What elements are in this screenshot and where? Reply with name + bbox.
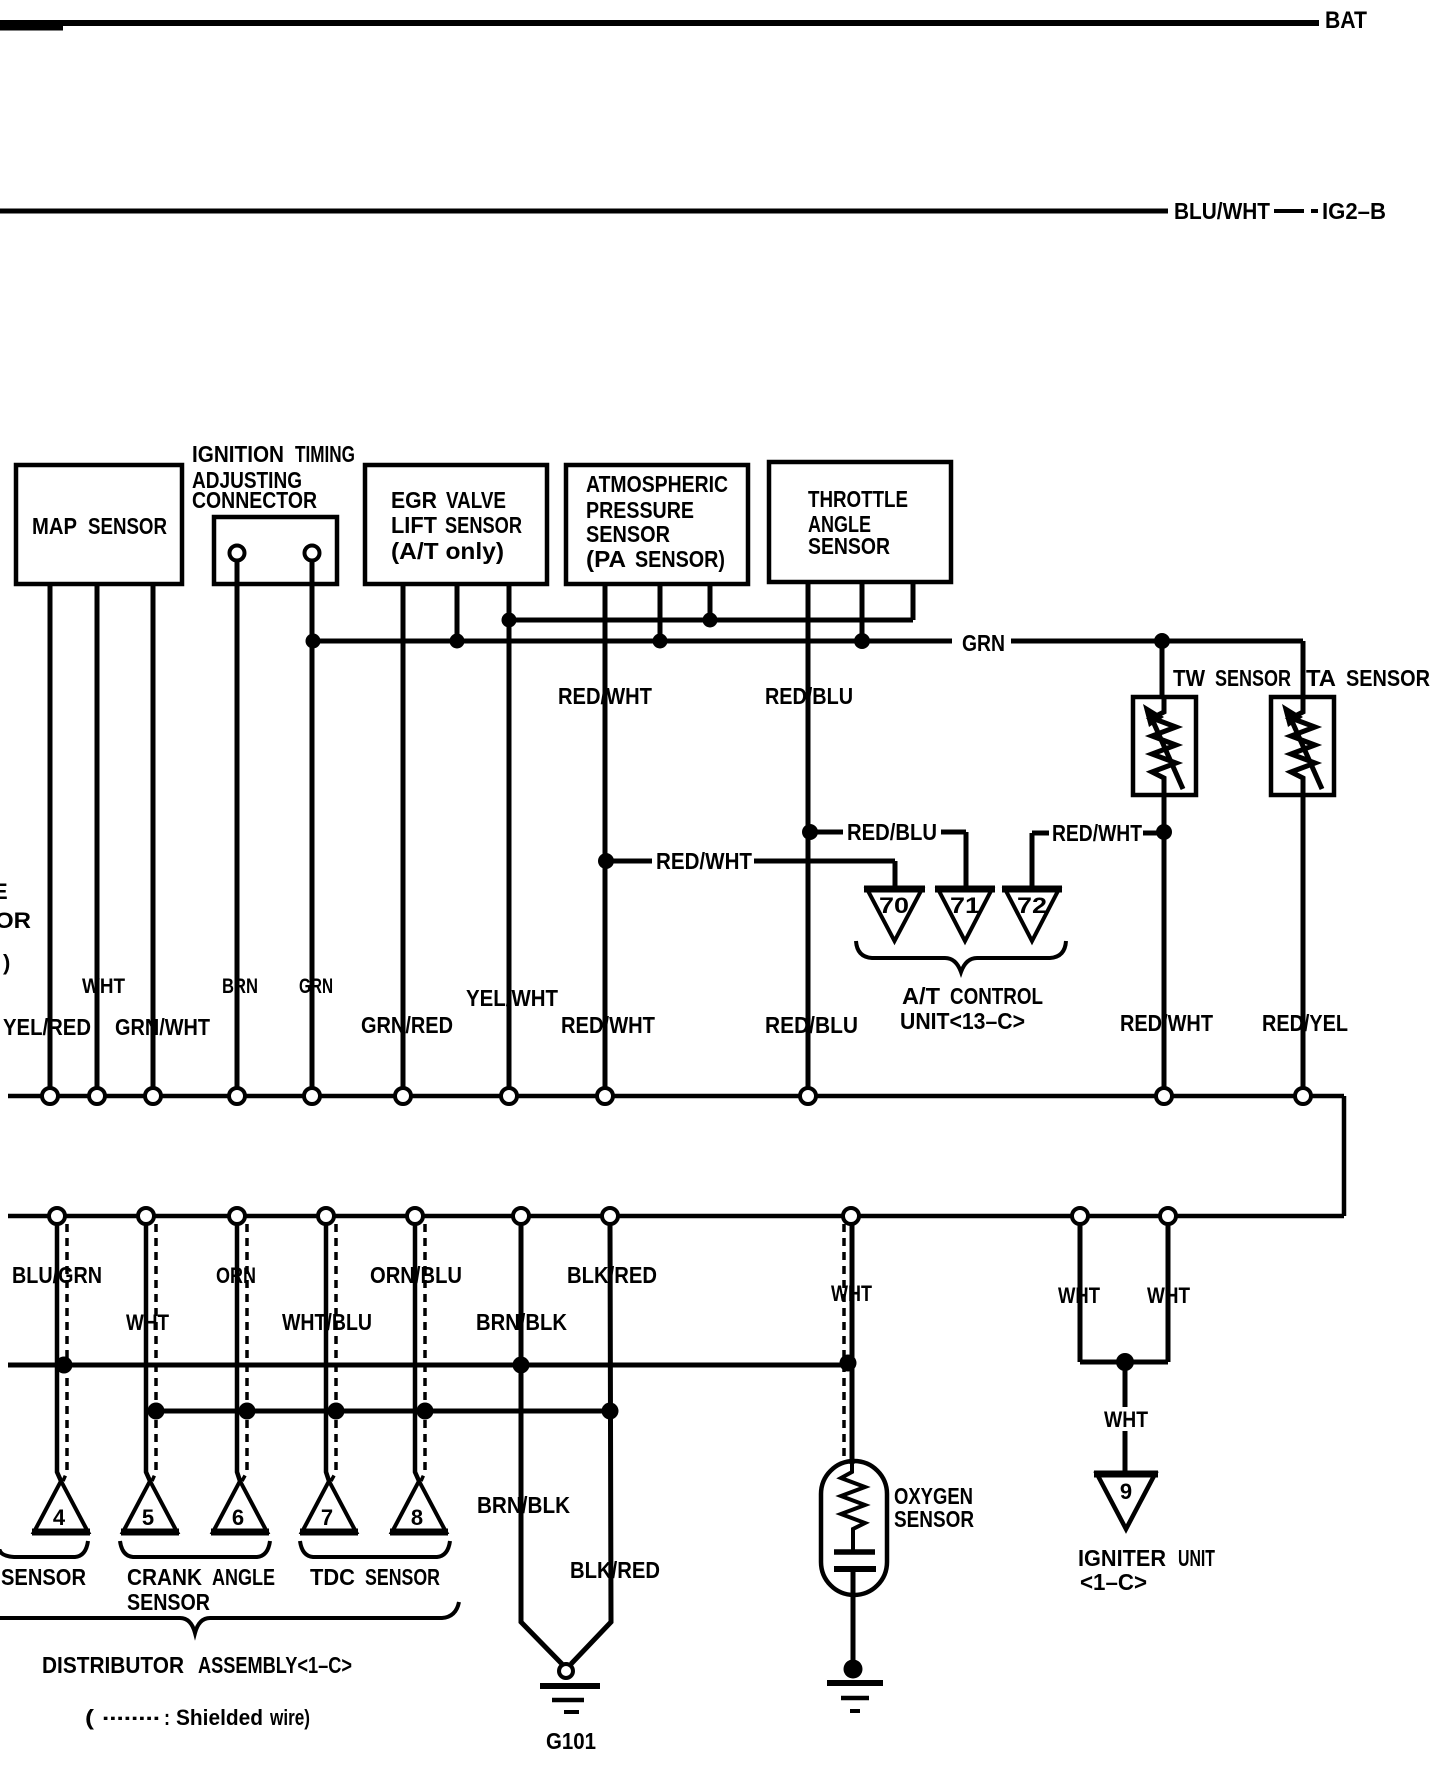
svg-text:WHT: WHT — [831, 1281, 872, 1306]
wire MAP pin1 YEL/RED — [48, 584, 53, 1089]
svg-text:THROTTLE: THROTTLE — [808, 486, 908, 512]
wire oxygen sensor shield dashed — [842, 1224, 846, 1461]
thermistor TW sensor — [1133, 697, 1196, 795]
wire oxygen sensor to ground — [851, 1569, 856, 1665]
svg-text:4: 4 — [53, 1505, 66, 1530]
resistor heater inside oxygen sensor — [841, 1464, 865, 1552]
svg-text:ANGLE: ANGLE — [212, 1564, 275, 1590]
wire PA pin3 to YEL/WHT net — [708, 584, 713, 620]
pin circle connector pin2 — [305, 546, 320, 561]
junction GRN net at PA pin2 — [653, 634, 668, 649]
svg-text:G101: G101 — [546, 1728, 596, 1754]
svg-text:8: 8 — [411, 1505, 423, 1530]
svg-text:ORN: ORN — [216, 1263, 256, 1288]
svg-text:E: E — [0, 879, 8, 904]
svg-text:GRN/RED: GRN/RED — [361, 1012, 453, 1038]
svg-text:SENSOR: SENSOR — [127, 1589, 210, 1615]
svg-text:A/T: A/T — [902, 983, 940, 1009]
bracket under terminals 7-8 — [300, 1541, 450, 1557]
shielded wire pair terminal 8 ORN/BLU — [415, 1224, 419, 1481]
terminal triangle 9 — [1097, 1474, 1155, 1529]
svg-text:BAT: BAT — [1325, 7, 1367, 34]
svg-text:PRESSURE: PRESSURE — [586, 497, 694, 523]
svg-text:70: 70 — [879, 893, 909, 918]
junction GRN net at EGR pin2 — [450, 634, 465, 649]
svg-text:6: 6 — [232, 1505, 244, 1530]
svg-text:BRN: BRN — [222, 975, 258, 998]
svg-text:SENSOR: SENSOR — [445, 512, 522, 538]
svg-text:CRANK: CRANK — [127, 1564, 202, 1590]
terminal triangle 5 — [123, 1481, 177, 1532]
svg-text:GRN: GRN — [299, 975, 333, 998]
component EGR VALVE LIFT SENSOR box — [365, 465, 547, 584]
wire TW sensor RED/WHT down — [1162, 795, 1167, 1089]
svg-text:7: 7 — [321, 1505, 333, 1530]
svg-text:<1–C>: <1–C> — [1080, 1569, 1147, 1595]
shielded wire pair terminal 6 ORN — [237, 1224, 240, 1481]
terminal triangle 8 — [392, 1481, 446, 1532]
svg-text:TIMING: TIMING — [295, 441, 355, 467]
svg-text:RED/BLU: RED/BLU — [847, 819, 937, 845]
svg-text:RED/BLU: RED/BLU — [765, 683, 853, 709]
junctions on shield buses — [56, 1355, 857, 1420]
junction branch 72 on TW wire — [1156, 824, 1172, 840]
wire igniter join — [1080, 1360, 1168, 1365]
wire ECU connector row 2 — [8, 1214, 1344, 1219]
svg-text:(PA: (PA — [586, 546, 626, 572]
terminal triangle 4 — [34, 1481, 88, 1532]
wire igniter down lower — [1123, 1431, 1128, 1476]
wire dash to IG2-B — [1274, 209, 1318, 213]
wire igniter WHT right — [1166, 1224, 1171, 1362]
wire GRN net right segment — [1011, 639, 1303, 644]
svg-text:WHT: WHT — [126, 1310, 169, 1335]
svg-text:CONTROL: CONTROL — [950, 983, 1043, 1009]
svg-text:BRN/BLK: BRN/BLK — [477, 1492, 570, 1518]
svg-text:SENSOR: SENSOR — [1346, 665, 1430, 691]
svg-text:DISTRIBUTOR: DISTRIBUTOR — [42, 1652, 184, 1678]
svg-text:TW: TW — [1173, 665, 1205, 691]
svg-text:ATMOSPHERIC: ATMOSPHERIC — [586, 471, 728, 497]
wire BAT stub left — [0, 26, 63, 31]
junction RED/WHT branch on PA pin1 — [598, 853, 614, 869]
svg-text:CONNECTOR: CONNECTOR — [192, 487, 317, 513]
svg-text:TDC: TDC — [310, 1564, 355, 1590]
terminal triangle 7 — [302, 1481, 356, 1532]
connector circles row 1 — [42, 1088, 1311, 1104]
svg-text:BLU/GRN: BLU/GRN — [12, 1262, 102, 1288]
wire PA pin2 to GRN net — [658, 584, 663, 641]
svg-text:RED/WHT: RED/WHT — [558, 683, 652, 709]
svg-text:RED/BLU: RED/BLU — [765, 1012, 858, 1038]
bracket under terminal 4 — [0, 1541, 88, 1557]
svg-text:WHT: WHT — [1104, 1407, 1148, 1432]
junction YEL/WHT net at EGR pin3 — [502, 613, 517, 628]
svg-text:5: 5 — [142, 1505, 154, 1530]
svg-text:): ) — [3, 950, 10, 975]
svg-text:ASSEMBLY<1–C>: ASSEMBLY<1–C> — [198, 1652, 352, 1678]
component THROTTLE ANGLE SENSOR box — [769, 462, 951, 582]
brace under terminals 70-72 — [856, 941, 1066, 972]
wire branch RED/BLU to terminal 71 — [810, 832, 966, 888]
svg-text:........: ........ — [102, 1700, 160, 1725]
wire GRN net left segment — [313, 639, 952, 644]
svg-text:LIFT: LIFT — [391, 512, 437, 538]
svg-text:9: 9 — [1120, 1479, 1132, 1504]
svg-text:IG2–B: IG2–B — [1322, 198, 1386, 224]
thermistor TA sensor — [1271, 697, 1334, 795]
svg-text:SENSOR: SENSOR — [586, 521, 670, 547]
wire IG2 bus BLU/WHT — [0, 209, 1168, 214]
junction GRN net at connector pin2 — [306, 613, 1171, 650]
pin circle connector pin1 — [230, 546, 245, 561]
svg-text:Shielded: Shielded — [176, 1705, 263, 1730]
svg-text:RED/YEL: RED/YEL — [1262, 1010, 1348, 1036]
ground G101 symbol — [559, 1664, 573, 1678]
wire BAT bus — [0, 20, 1319, 26]
wire MAP pin3 GRN/WHT — [151, 584, 156, 1089]
wire branch RED/WHT terminal 72 to TW wire — [1032, 833, 1164, 888]
svg-text:OR: OR — [0, 908, 31, 933]
wire TA sensor RED/YEL down — [1301, 795, 1306, 1089]
junction GRN net at TW drop — [1154, 633, 1170, 649]
shielded wire pair terminal 4 BLU/GRN — [57, 1224, 425, 1481]
wire igniter down upper — [1123, 1362, 1128, 1407]
wire ECU connector row 1 — [8, 1094, 1344, 1099]
junction igniter — [1116, 1353, 1134, 1371]
svg-text:EGR: EGR — [391, 487, 437, 513]
wire throttle pin2 to GRN net — [860, 582, 865, 641]
svg-text:RED/WHT: RED/WHT — [1120, 1010, 1213, 1036]
component ATMOSPHERIC PRESSURE SENSOR box — [566, 465, 748, 584]
wire shield ground bus B — [156, 1409, 610, 1414]
svg-text::: : — [164, 1705, 170, 1730]
svg-text:UNIT<13–C>: UNIT<13–C> — [900, 1008, 1025, 1034]
wire throttle pin3 to YEL/WHT net — [911, 582, 916, 620]
junction YEL/WHT net at PA pin3 — [703, 613, 718, 628]
svg-text:BLU/WHT: BLU/WHT — [1174, 198, 1270, 224]
component MAP SENSOR box — [16, 465, 182, 584]
svg-text:WHT: WHT — [1147, 1283, 1190, 1308]
wire BRN/BLK to G101 — [521, 1224, 562, 1664]
junction RED/BLU branch on throttle pin1 — [802, 824, 818, 840]
capacitor cell plates oxygen sensor — [834, 1549, 875, 1555]
svg-text:IGNITION: IGNITION — [192, 441, 284, 467]
svg-text:UNIT: UNIT — [1178, 1545, 1215, 1571]
wire shield ground bus A — [8, 1363, 846, 1368]
wire GRN net drop to TA sensor — [1301, 641, 1306, 697]
wire MAP pin2 WHT — [95, 584, 100, 1089]
svg-text:RED/WHT: RED/WHT — [561, 1012, 655, 1038]
wire BLK/RED to G101 — [571, 1224, 611, 1664]
svg-text:71: 71 — [950, 893, 980, 918]
svg-text:72: 72 — [1017, 893, 1047, 918]
svg-text:GRN/WHT: GRN/WHT — [115, 1014, 210, 1040]
svg-text:SENSOR: SENSOR — [894, 1506, 974, 1532]
wire GRN net drop to TW sensor — [1160, 641, 1165, 697]
wire igniter WHT left — [1078, 1224, 1083, 1362]
ground oxygen sensor — [844, 1660, 863, 1679]
svg-text:TA: TA — [1306, 665, 1336, 691]
svg-text:WHT: WHT — [82, 975, 125, 998]
wire EGR pin2 to GRN net — [455, 584, 460, 641]
svg-text:SENSOR: SENSOR — [365, 1564, 440, 1590]
svg-text:BLK/RED: BLK/RED — [570, 1557, 660, 1583]
svg-text:GRN: GRN — [962, 630, 1005, 656]
wire EGR pin3 YEL/WHT — [507, 584, 512, 1089]
terminal triangle 6 — [213, 1481, 267, 1532]
svg-text:IGNITER: IGNITER — [1078, 1545, 1166, 1571]
component oxygen sensor body — [821, 1461, 887, 1595]
shielded wire pair terminal 5 WHT — [146, 1224, 150, 1481]
wire throttle pin1 RED/BLU — [806, 582, 811, 1089]
wire YEL/WHT horizontal net — [509, 618, 913, 623]
terminal triangle 72 — [1005, 889, 1059, 941]
shielded wire pair terminal 7 WHT/BLU — [326, 1224, 329, 1481]
svg-text:RED/WHT: RED/WHT — [1052, 820, 1142, 846]
wire connector pin1 BRN — [235, 561, 240, 1089]
svg-text:(A/T only): (A/T only) — [391, 538, 504, 564]
junction GRN net at throttle pin2 — [854, 633, 870, 649]
svg-text:(: ( — [85, 1705, 95, 1730]
wire row1 to row2 right side — [1342, 1096, 1347, 1216]
svg-text:RED/WHT: RED/WHT — [656, 848, 752, 874]
svg-text:wire): wire) — [269, 1705, 310, 1730]
svg-text:YEL/WHT: YEL/WHT — [466, 985, 558, 1011]
svg-text:SENSOR: SENSOR — [1, 1564, 86, 1590]
svg-text:SENSOR): SENSOR) — [635, 546, 725, 572]
svg-text:VALVE: VALVE — [446, 487, 506, 513]
wire PA pin1 RED/WHT — [603, 584, 608, 1089]
wire branch RED/WHT to terminal 70 — [606, 861, 895, 888]
wire oxygen sensor WHT — [850, 1224, 855, 1464]
svg-text:YEL/RED: YEL/RED — [3, 1014, 91, 1040]
terminal triangle 71 — [938, 889, 992, 941]
svg-text:SENSOR: SENSOR — [88, 513, 167, 539]
terminal triangle 70 — [867, 889, 922, 941]
component IGNITION TIMING ADJUSTING CONNECTOR box — [214, 517, 337, 584]
brace distributor assembly — [0, 1602, 459, 1633]
svg-text:MAP: MAP — [32, 513, 77, 539]
bracket under terminals 5-6 — [120, 1541, 270, 1557]
svg-text:SENSOR: SENSOR — [808, 533, 890, 559]
wire EGR pin1 GRN/RED — [401, 584, 406, 1089]
svg-text:WHT/BLU: WHT/BLU — [282, 1309, 372, 1335]
svg-text:WHT: WHT — [1058, 1283, 1100, 1308]
wire connector pin2 GRN — [310, 561, 315, 1089]
connector circles row 2 — [49, 1208, 1176, 1224]
svg-text:SENSOR: SENSOR — [1215, 665, 1291, 691]
svg-text:ORN/BLU: ORN/BLU — [370, 1262, 462, 1288]
